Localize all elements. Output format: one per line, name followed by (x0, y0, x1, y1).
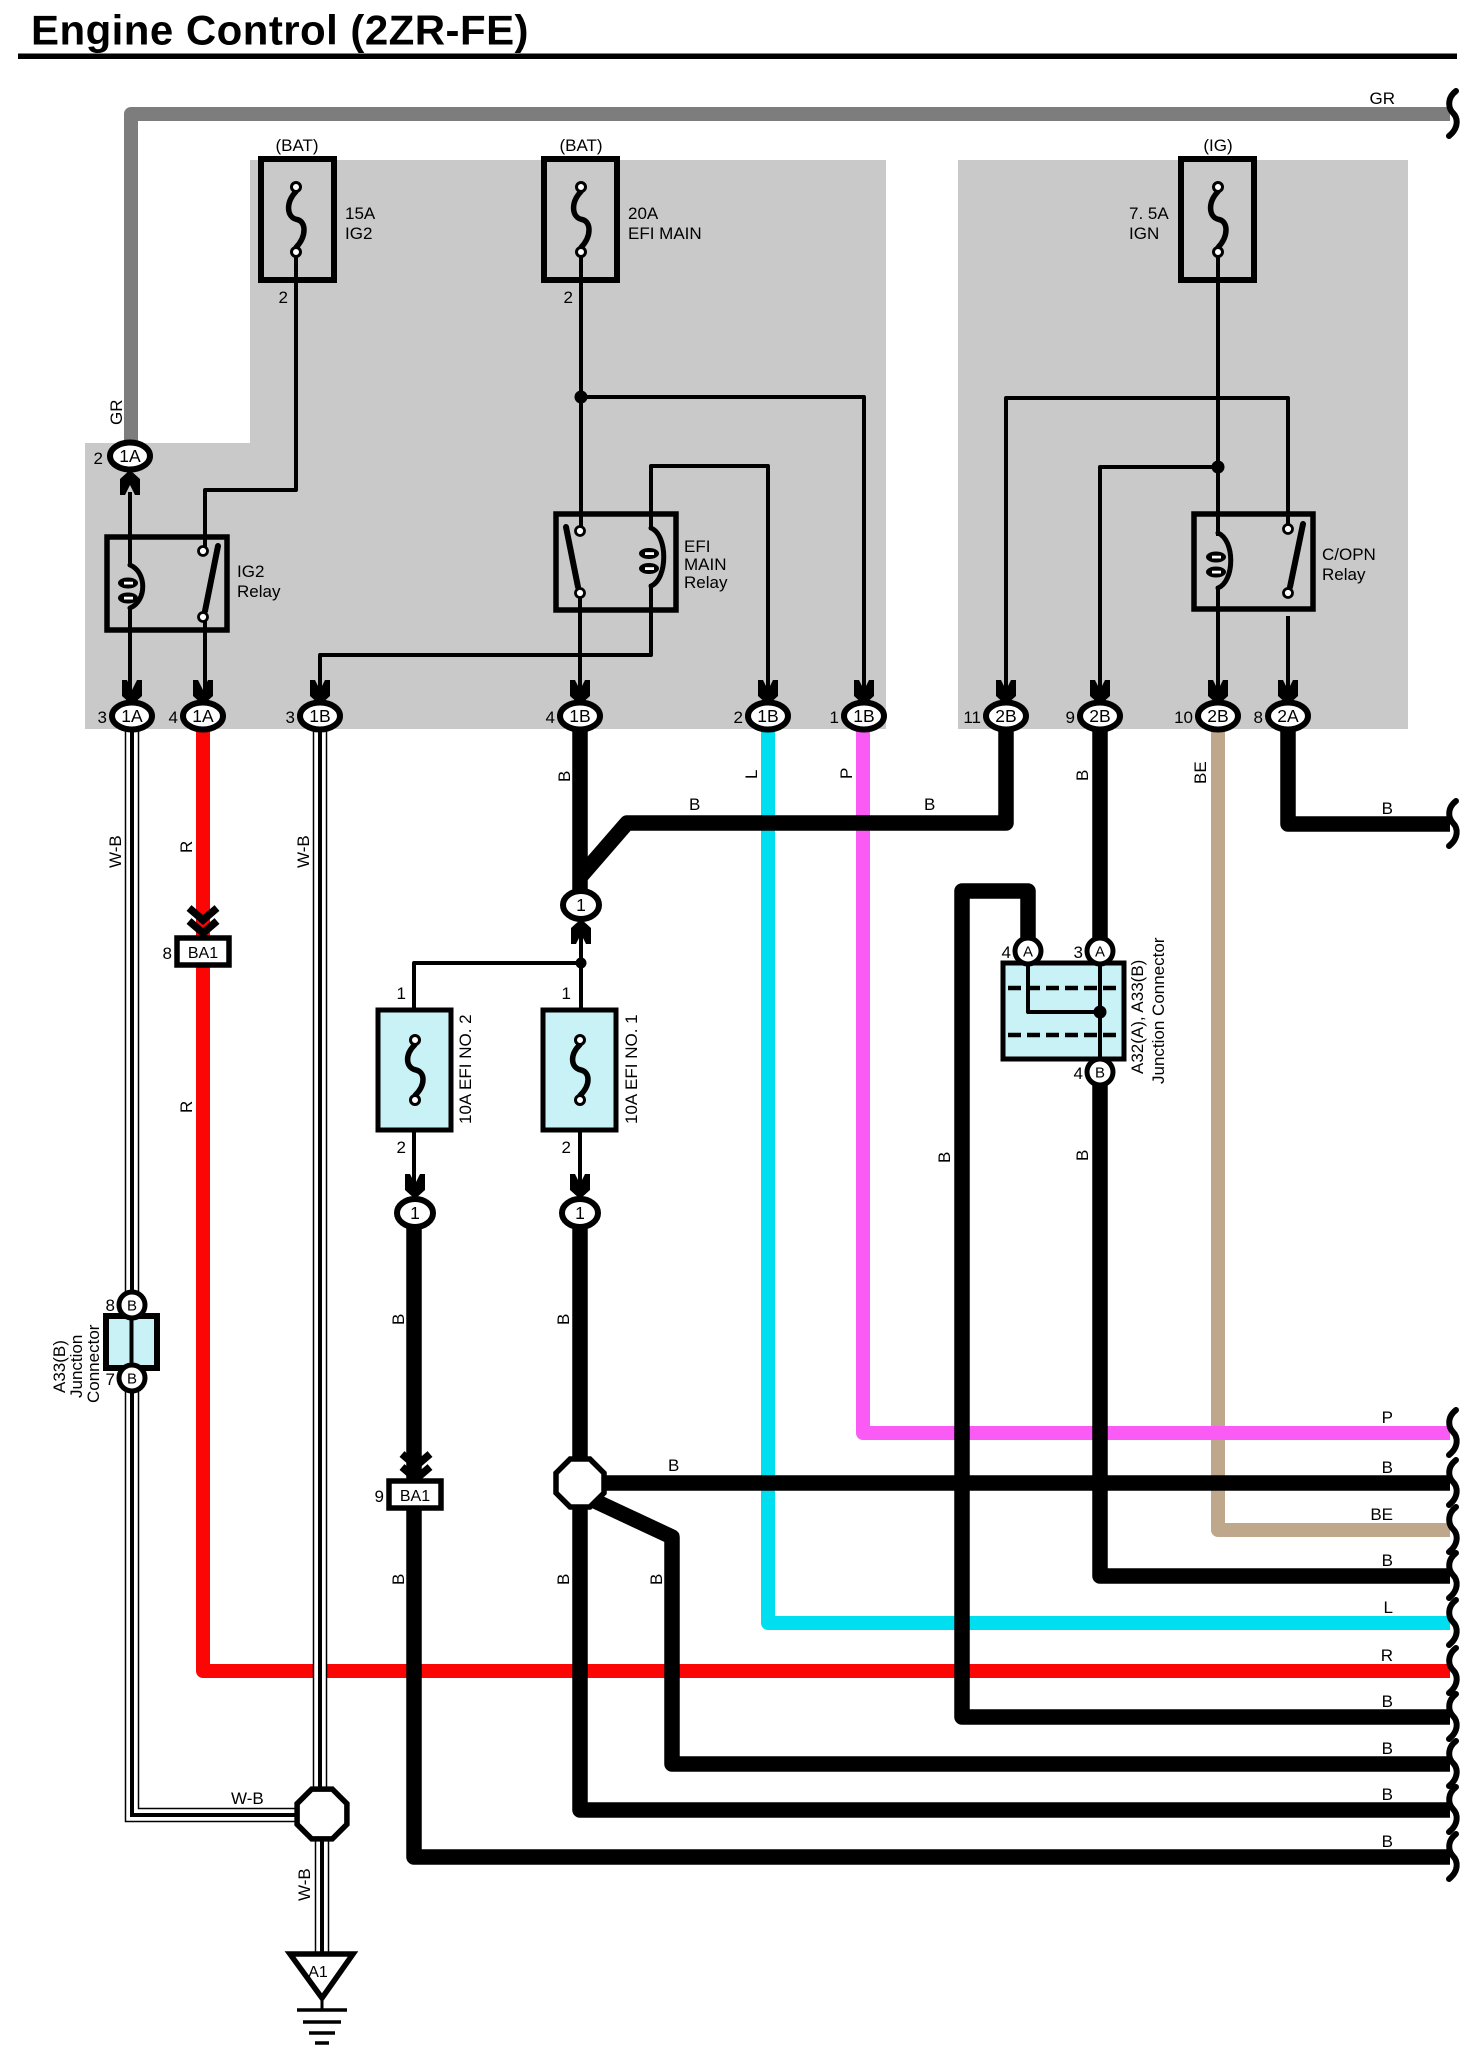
svg-text:1: 1 (830, 708, 839, 727)
svg-text:EFI: EFI (684, 537, 710, 556)
label R red wire lower (177, 1101, 196, 1113)
svg-text:(BAT): (BAT) (559, 136, 602, 155)
svg-text:2B: 2B (1089, 706, 1110, 726)
wire B from pin 4-1B down to node 1 (572, 725, 588, 896)
svg-text:8: 8 (163, 944, 172, 963)
svg-text:W-B: W-B (231, 1789, 264, 1808)
curl and label L at right edge y=1623 (1384, 1598, 1457, 1645)
wire BE beige from pin 10-2B to right edge (1218, 729, 1450, 1530)
svg-text:BE: BE (1191, 761, 1210, 784)
svg-text:Relay: Relay (237, 582, 281, 601)
wire W-B octagon to ground A1 (315, 1837, 330, 1954)
label Junction Connector A32 (1149, 937, 1168, 1084)
svg-text:11: 11 (963, 708, 981, 727)
label IG2 Relay (237, 562, 281, 601)
wire B octagon diagonal branch to right edge (595, 1501, 1450, 1764)
svg-text:W-B: W-B (106, 835, 125, 868)
label B horizontal branch left (689, 795, 700, 814)
shaded relay block region right (958, 160, 1408, 729)
ground A1 (290, 1954, 353, 2043)
junction dot inside A32/A33 (1094, 1006, 1107, 1019)
svg-text:4: 4 (169, 708, 178, 727)
arrow into pin 1-1B (854, 680, 874, 705)
svg-text:EFI MAIN: EFI MAIN (628, 224, 702, 243)
svg-text:4: 4 (1002, 943, 1011, 962)
svg-text:B: B (1073, 770, 1092, 781)
wire C/OPN relay coil to pin 10-2B (1216, 586, 1220, 692)
svg-text:B: B (1382, 1692, 1393, 1711)
relay C/OPN switch (1284, 524, 1304, 598)
svg-text:GR: GR (107, 400, 126, 426)
arrow into pin 8-2A (1278, 680, 1298, 705)
wire EFI MAIN relay coil bottom to pin 3-1B (320, 584, 651, 692)
svg-text:8: 8 (106, 1296, 115, 1315)
wire EFI MAIN relay coil top to pin 2-1B (651, 466, 768, 692)
svg-text:2: 2 (564, 288, 573, 307)
svg-text:Relay: Relay (1322, 565, 1366, 584)
svg-text:2A: 2A (1277, 706, 1299, 726)
label pin 2 fuse EFI NO.2 (397, 1138, 406, 1157)
label pin 2 fuse IG2 (279, 288, 288, 307)
svg-text:(IG): (IG) (1203, 136, 1232, 155)
arrow into pin 2-1B (758, 680, 778, 705)
svg-text:MAIN: MAIN (684, 555, 727, 574)
curl and label BE at right edge y=1530 (1370, 1505, 1456, 1552)
label W-B at octagon (231, 1789, 264, 1808)
junction octagon B wires (556, 1459, 604, 1507)
wire IG2 relay switch to pin 4-1A (203, 616, 207, 692)
svg-text:B: B (127, 1298, 137, 1315)
wire node 2-1A to IG2 relay coil (128, 492, 132, 566)
arrow into pin 11-2B (996, 680, 1016, 705)
curl and label P at right edge y=1433 (1382, 1408, 1457, 1455)
wire R red from pin 4-1A to right edge (203, 729, 1450, 1671)
connector pin 3-1B (286, 703, 340, 730)
label W-B second wire (294, 835, 313, 868)
wire W-B from pin 3-1A to octagon ground node (132, 725, 298, 1815)
svg-text:20A: 20A (628, 204, 659, 223)
svg-text:1B: 1B (309, 706, 330, 726)
curl and label B at right edge y=1576 (1382, 1551, 1457, 1598)
relay C/OPN box (1194, 514, 1313, 609)
svg-text:P: P (1382, 1408, 1393, 1427)
wire EFI MAIN relay switch to pin 4-1B (578, 597, 582, 692)
wire pin 11-2B to C/OPN relay switch (1006, 398, 1288, 692)
junction dot EFI MAIN branch (575, 391, 588, 404)
label B above BA1 (389, 1314, 408, 1325)
node 1 EFI feed (563, 891, 599, 919)
junction connector A32(A) A33(B) box (1003, 963, 1124, 1059)
label A33(B) (50, 1340, 69, 1393)
svg-text:B: B (1382, 799, 1393, 818)
svg-text:1A: 1A (192, 706, 214, 726)
label pin 2 fuse EFI NO.1 (562, 1138, 571, 1157)
svg-text:15A: 15A (345, 204, 376, 223)
label EFI MAIN Relay (684, 537, 728, 592)
curl GR right end (1449, 91, 1457, 136)
label B above octagon (554, 1314, 573, 1325)
svg-text:L: L (1384, 1598, 1393, 1617)
svg-text:10A EFI NO. 1: 10A EFI NO. 1 (622, 1014, 641, 1124)
connector pin 3-1A (98, 703, 152, 730)
label W-B left wire (106, 835, 125, 868)
svg-text:2: 2 (94, 449, 103, 468)
node 1 below EFI NO.2 (397, 1199, 433, 1227)
fuse 15A IG2 (261, 159, 334, 280)
curl and label B at right edge y=1717 (1382, 1692, 1457, 1739)
svg-text:1: 1 (575, 1203, 585, 1223)
junction connector pin 3-A (1074, 938, 1113, 964)
arrow into pin 10-2B (1208, 680, 1228, 705)
label W-B below octagon (295, 1868, 314, 1901)
svg-text:B: B (554, 1574, 573, 1585)
svg-text:IG2: IG2 (237, 562, 264, 581)
svg-text:Engine Control (2ZR-FE): Engine Control (2ZR-FE) (31, 7, 529, 54)
arrow into node 1 EFI feed (571, 919, 591, 944)
label B below BA1 (389, 1574, 408, 1585)
svg-text:L: L (742, 770, 761, 779)
svg-text:IG2: IG2 (345, 224, 372, 243)
svg-text:1: 1 (410, 1203, 420, 1223)
label B horizontal branch right (924, 795, 935, 814)
label (BAT) fuse IG2 (275, 136, 318, 155)
relay EFI MAIN switch (566, 527, 585, 598)
svg-text:IGN: IGN (1129, 224, 1159, 243)
relay IG2 switch (199, 546, 219, 622)
fuse 7.5A IGN (1181, 159, 1254, 280)
wire fuse EFI NO.2 to node 1 lower (412, 1130, 416, 1198)
relay IG2 coil (118, 565, 143, 608)
svg-text:Relay: Relay (684, 573, 728, 592)
wire C/OPN relay switch to pin 8-2A (1286, 616, 1290, 692)
svg-text:B: B (689, 795, 700, 814)
label Junction A33 (67, 1335, 86, 1398)
fuse 10A EFI NO.2 (378, 1010, 451, 1130)
junction dot IGN branch (1212, 461, 1225, 474)
wire B junction connector 4-B to right edge (1100, 1078, 1450, 1576)
svg-text:3: 3 (98, 708, 107, 727)
svg-text:4: 4 (546, 708, 555, 727)
svg-text:1B: 1B (569, 706, 590, 726)
label 15A IG2 (345, 204, 376, 243)
label C/OPN Relay (1322, 545, 1376, 584)
svg-text:B: B (389, 1314, 408, 1325)
label pin 1 fuse EFI NO.2 (397, 984, 406, 1003)
wire fuse IGN down to C/OPN relay coil (1216, 252, 1220, 536)
curl and label B at right edge y=824 (1382, 799, 1457, 846)
svg-text:2B: 2B (1207, 706, 1228, 726)
svg-text:BE: BE (1370, 1505, 1393, 1524)
wire B from junction connector 4-A to right edge (962, 891, 1450, 1717)
label R red wire upper (177, 841, 196, 853)
shaded relay block region left (85, 160, 886, 729)
svg-text:1A: 1A (119, 446, 141, 466)
arrow into pin 4-1B (570, 680, 590, 705)
svg-text:2: 2 (279, 288, 288, 307)
svg-text:(BAT): (BAT) (275, 136, 318, 155)
svg-text:B: B (1382, 1832, 1393, 1851)
svg-text:P: P (837, 768, 856, 779)
connector pin 4-1B (546, 703, 600, 730)
wire W-B from pin 3-1B to octagon ground node (313, 725, 328, 1791)
wire branch IGN to pin 9-2B (1100, 467, 1218, 692)
svg-text:2: 2 (734, 708, 743, 727)
wire B octagon to right edge (598, 1475, 1450, 1491)
arrow into node 1 below EFI NO.1 (570, 1174, 590, 1199)
curl and label B at right edge y=1764 (1382, 1739, 1457, 1786)
label B on octagon east line (668, 1456, 679, 1475)
svg-text:A: A (1095, 944, 1105, 961)
junction connector A33(B) box (106, 1316, 157, 1368)
junction dot EFI fuse feed (576, 958, 587, 969)
label (IG) fuse IGN (1203, 136, 1232, 155)
junction connector pin 7-B (106, 1365, 145, 1391)
wire fuse EFI NO.1 to node 1 lower (578, 1130, 582, 1198)
svg-text:1: 1 (576, 895, 586, 915)
wire B from EFI NO.1 node down through octagon to right edge (580, 1222, 1450, 1810)
connector BA1 on B wire (375, 1481, 441, 1508)
connector pin 2-1B (734, 703, 788, 730)
svg-text:A: A (1023, 944, 1033, 961)
connector pin 11-2B (963, 703, 1026, 730)
label B wire junction connector lower (1073, 1150, 1092, 1161)
curl and label B at right edge y=1810 (1382, 1785, 1457, 1832)
wire B pin 8-2A to right edge (1288, 729, 1450, 824)
connector BA1 on R wire (163, 938, 229, 965)
svg-text:B: B (1382, 1458, 1393, 1477)
svg-text:2: 2 (397, 1138, 406, 1157)
arrow into pin 9-2B (1090, 680, 1110, 705)
svg-text:B: B (389, 1574, 408, 1585)
label B diagonal branch (647, 1574, 666, 1585)
svg-text:B: B (647, 1574, 666, 1585)
connector pin 4-1A (169, 703, 223, 730)
svg-text:R: R (177, 1101, 196, 1113)
svg-text:9: 9 (1066, 708, 1075, 727)
label A32(A) A33(B) (1128, 960, 1147, 1074)
svg-text:4: 4 (1074, 1064, 1083, 1083)
fuse 20A EFI MAIN (544, 159, 617, 280)
label B below 9-2B (1073, 770, 1092, 781)
wire node 1 to EFI fuses thin (414, 917, 581, 1010)
relay EFI MAIN coil (639, 528, 664, 586)
svg-text:1: 1 (397, 984, 406, 1003)
junction connector pin 8-B (106, 1292, 145, 1318)
junction connector pin 4-A (1002, 938, 1041, 964)
svg-text:R: R (177, 841, 196, 853)
label B wire left of junction connector (935, 1152, 954, 1163)
svg-text:10A EFI NO. 2: 10A EFI NO. 2 (456, 1014, 475, 1124)
svg-text:Junction Connector: Junction Connector (1149, 937, 1168, 1084)
node 2-1A (94, 443, 150, 470)
svg-text:C/OPN: C/OPN (1322, 545, 1376, 564)
connector pin 1-1B (830, 703, 884, 730)
svg-text:1B: 1B (853, 706, 874, 726)
svg-text:B: B (554, 1314, 573, 1325)
svg-text:1B: 1B (757, 706, 778, 726)
label P pink wire (837, 768, 856, 779)
svg-text:2B: 2B (995, 706, 1016, 726)
svg-text:GR: GR (1370, 89, 1396, 108)
svg-text:W-B: W-B (295, 1868, 314, 1901)
wire B pin 9-2B to junction connector 3-A (1092, 729, 1108, 944)
relay C/OPN coil (1206, 533, 1231, 588)
label BE beige wire (1191, 761, 1210, 784)
curl and label R at right edge y=1671 (1381, 1646, 1457, 1693)
wire P pink from pin 1-1B to right edge (863, 729, 1450, 1433)
node 1 below EFI NO.1 (562, 1199, 598, 1227)
wire fuse IG2 to IG2 relay switch (205, 252, 296, 548)
connector pin 9-2B (1066, 703, 1120, 730)
label (BAT) fuse EFI MAIN (559, 136, 602, 155)
svg-text:7. 5A: 7. 5A (1129, 204, 1169, 223)
svg-text:2: 2 (562, 1138, 571, 1157)
svg-text:A1: A1 (308, 1964, 328, 1981)
svg-text:W-B: W-B (294, 835, 313, 868)
svg-text:1: 1 (562, 984, 571, 1003)
label L cyan wire (742, 770, 761, 779)
svg-text:9: 9 (375, 1487, 384, 1506)
junction connector pin 4-B (1074, 1059, 1113, 1085)
svg-text:3: 3 (286, 708, 295, 727)
wire L cyan from pin 2-1B to right edge (768, 729, 1450, 1623)
wire B branch diagonal to pin 11-2B (581, 725, 1006, 876)
arrow into node 1 below EFI NO.2 (405, 1174, 425, 1199)
label 10A EFI NO.2 (456, 1014, 475, 1124)
label 10A EFI NO.1 (622, 1014, 641, 1124)
label B below octagon (554, 1574, 573, 1585)
svg-text:7: 7 (106, 1370, 115, 1389)
svg-text:B: B (668, 1456, 679, 1475)
svg-text:R: R (1381, 1646, 1393, 1665)
title Engine Control (2ZR-FE) (18, 7, 1457, 60)
svg-text:1A: 1A (121, 706, 143, 726)
chevron arrows on R wire (189, 908, 217, 933)
svg-text:B: B (1382, 1739, 1393, 1758)
wire branch to pin 1-1B (581, 397, 864, 692)
wire B from EFI NO.2 node down to right edge (414, 1222, 1450, 1857)
wire IG2 relay coil to pin 3-1A (128, 607, 132, 692)
svg-text:B: B (935, 1152, 954, 1163)
svg-text:3: 3 (1074, 943, 1083, 962)
label Connector A33 (84, 1324, 103, 1403)
svg-text:B: B (127, 1371, 137, 1388)
arrow into pin 3-1A (122, 680, 142, 705)
chevron arrows on B wire (402, 1454, 430, 1479)
wire fuse EFI MAIN down with branch (579, 252, 583, 527)
svg-text:B: B (1382, 1785, 1393, 1804)
relay IG2 box (107, 537, 227, 630)
arrow into node 2-1A (120, 470, 140, 495)
svg-text:Connector: Connector (84, 1324, 103, 1403)
svg-text:BA1: BA1 (400, 1488, 430, 1505)
svg-text:B: B (1095, 1065, 1105, 1082)
curl and label B at right edge y=1483 (1382, 1458, 1457, 1505)
connector pin 10-2B (1174, 703, 1238, 730)
wire GR gray main feed (107, 89, 1450, 441)
connector pin 8-2A (1254, 703, 1308, 730)
label pin 2 fuse EFI MAIN (564, 288, 573, 307)
svg-text:B: B (555, 771, 574, 782)
curl and label B at right edge y=1857 (1382, 1832, 1457, 1879)
junction octagon W-B ground node (297, 1789, 347, 1839)
label 7.5A IGN (1129, 204, 1169, 243)
fuse 10A EFI NO.1 (543, 1010, 616, 1130)
svg-text:8: 8 (1254, 708, 1263, 727)
svg-text:B: B (1073, 1150, 1092, 1161)
svg-text:B: B (1382, 1551, 1393, 1570)
svg-text:10: 10 (1174, 708, 1193, 727)
label B below 4-1B (555, 771, 574, 782)
arrow into pin 4-1A (193, 680, 213, 705)
svg-text:BA1: BA1 (188, 945, 218, 962)
svg-text:B: B (924, 795, 935, 814)
svg-text:A32(A), A33(B): A32(A), A33(B) (1128, 960, 1147, 1074)
arrow into pin 3-1B (310, 680, 330, 705)
label pin 1 fuse EFI NO.1 (562, 984, 571, 1003)
relay EFI MAIN box (556, 514, 676, 610)
label 20A EFI MAIN (628, 204, 702, 243)
